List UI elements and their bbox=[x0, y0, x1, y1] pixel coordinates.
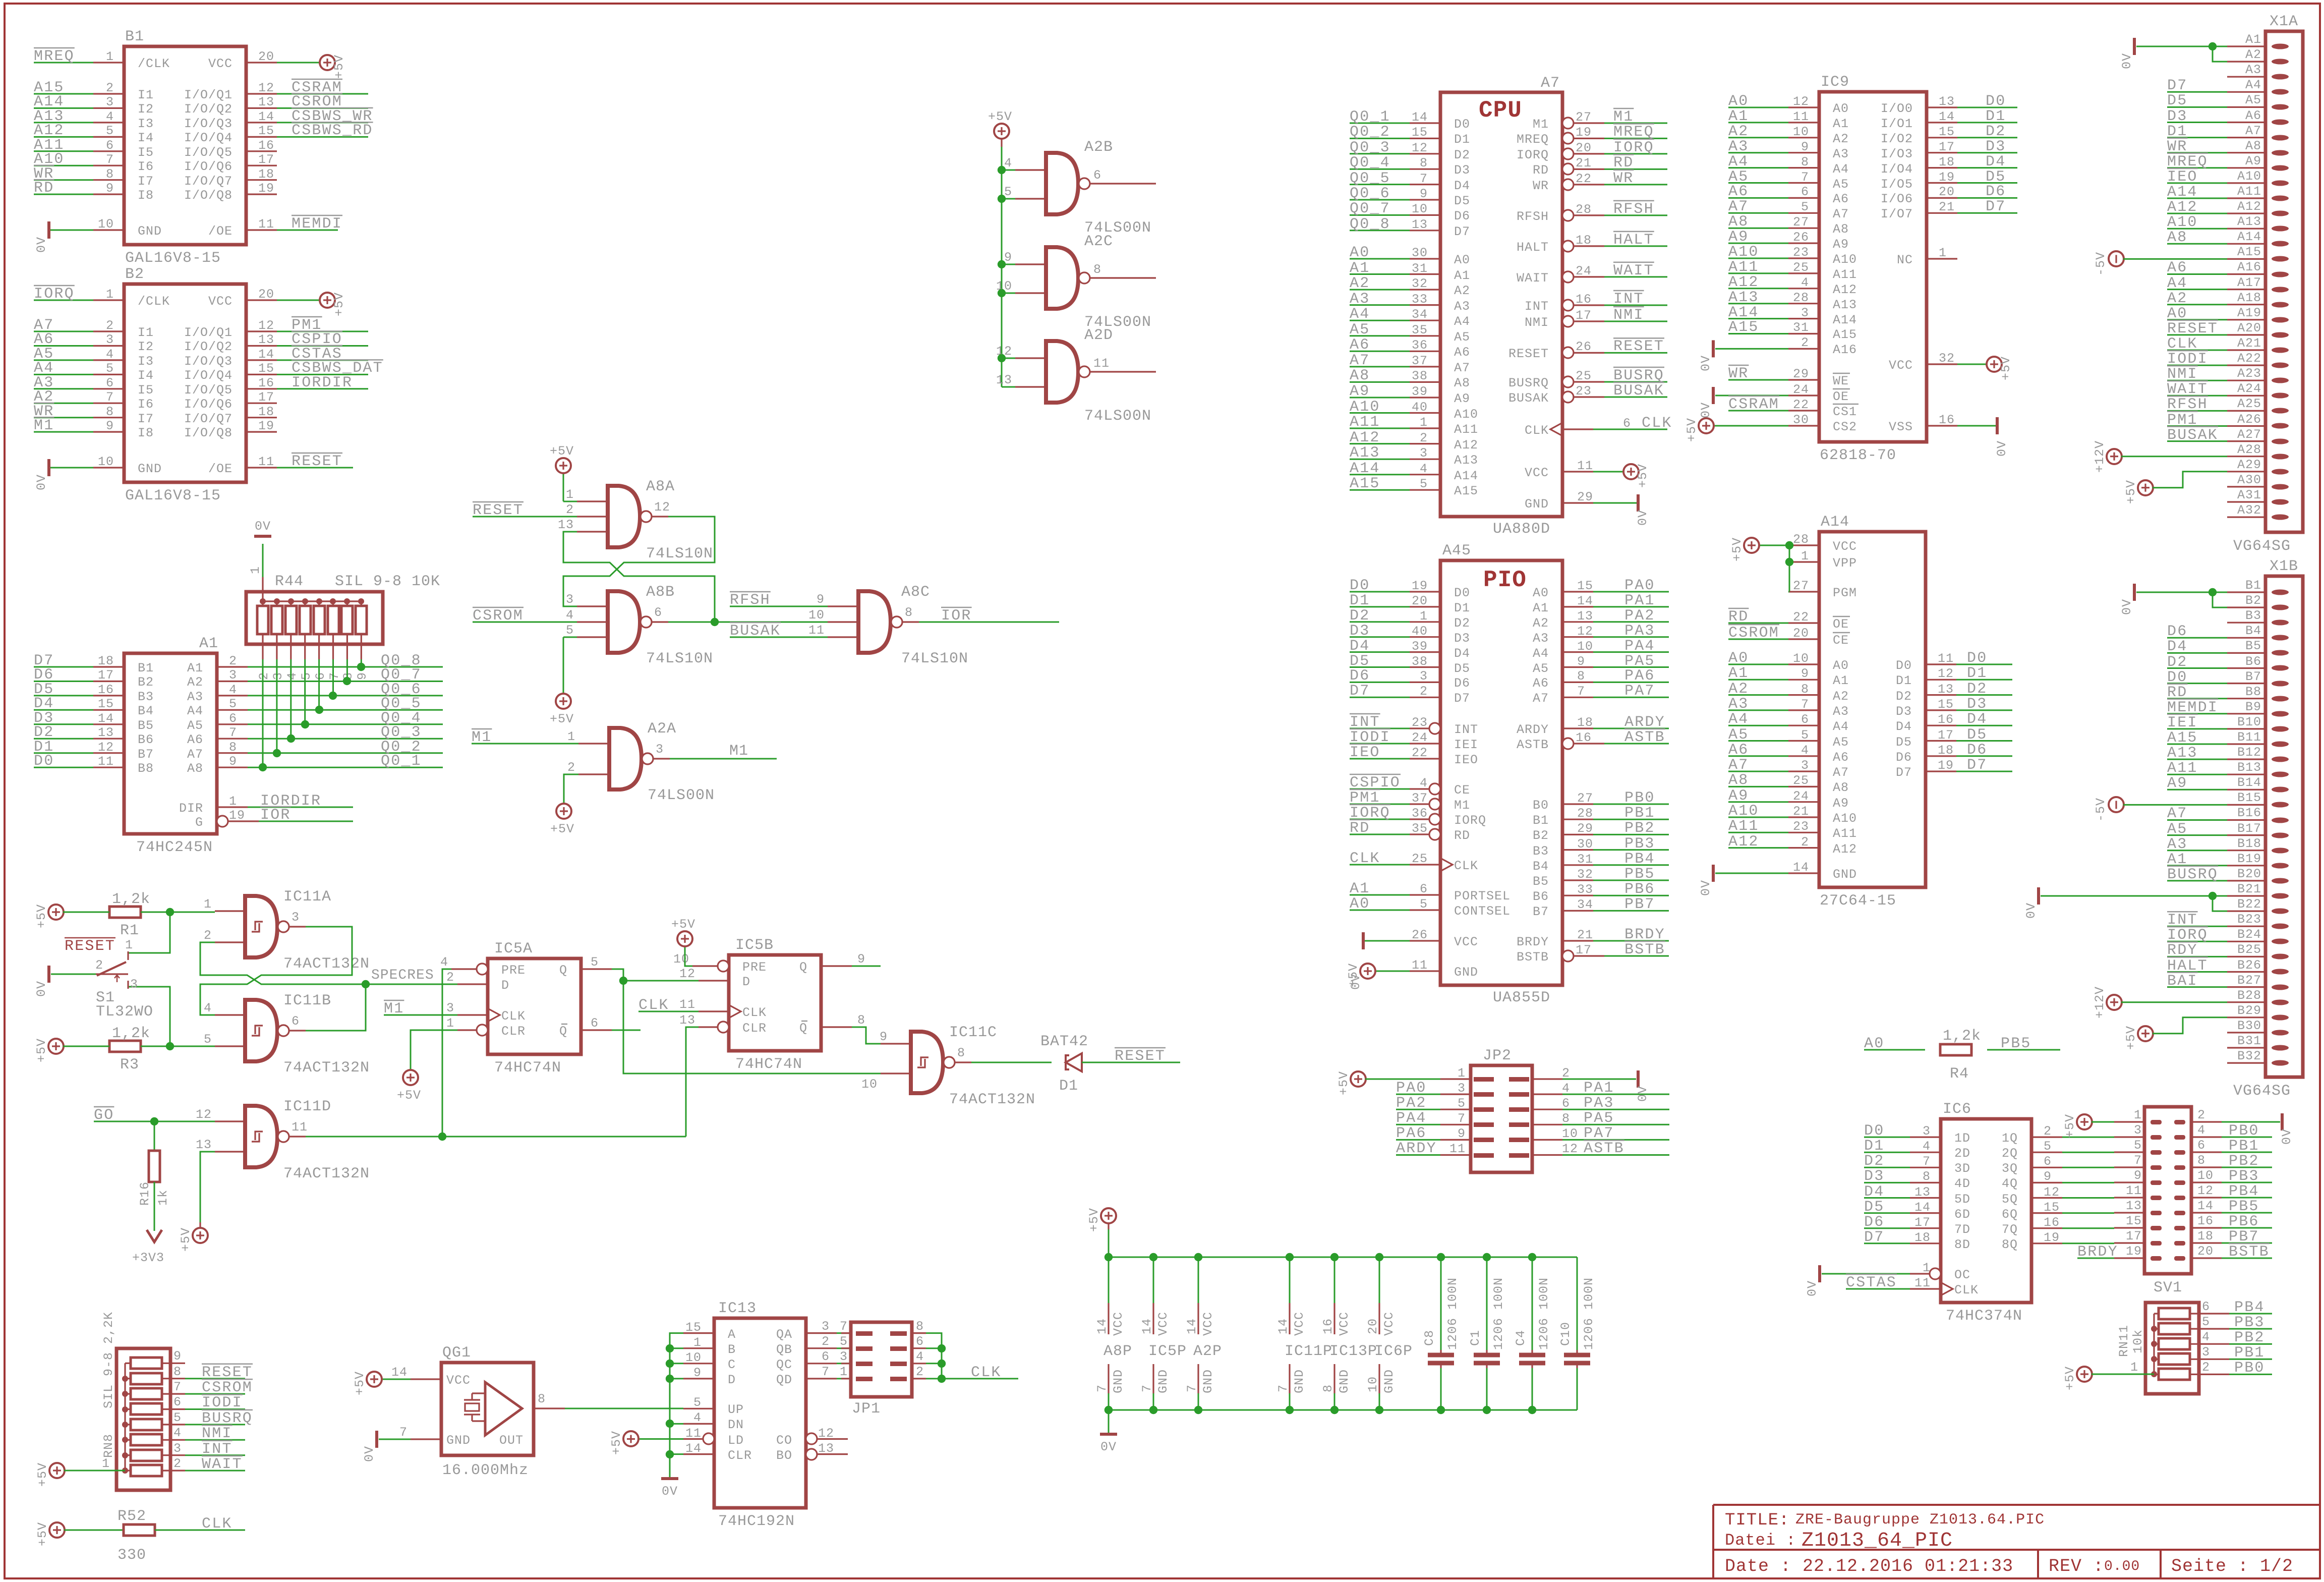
svg-text:33: 33 bbox=[1577, 882, 1593, 897]
wire A8A.13 cross link bbox=[563, 532, 715, 622]
svg-text:+5V: +5V bbox=[1337, 1071, 1351, 1095]
svg-text:14: 14 bbox=[1939, 109, 1955, 124]
title block frame bbox=[1713, 1505, 2320, 1578]
pin X1B.B19 net A1 bbox=[2272, 863, 2289, 869]
ground 0V at SV1.2 bbox=[2222, 1121, 2280, 1123]
pin B1.1 /CLK net MREQ bbox=[93, 62, 124, 63]
svg-text:A0: A0 bbox=[1833, 101, 1849, 116]
svg-text:I/O/Q1: I/O/Q1 bbox=[184, 325, 233, 340]
svg-text:B23: B23 bbox=[2237, 912, 2261, 927]
svg-text:A1: A1 bbox=[1728, 108, 1749, 125]
svg-text:2: 2 bbox=[822, 1334, 830, 1349]
svg-text:INT: INT bbox=[1454, 722, 1478, 737]
svg-text:HALT: HALT bbox=[1517, 240, 1549, 255]
wire IC5B.CLR riser from IC11D output bbox=[686, 1027, 699, 1137]
pin A8B.6 output bbox=[641, 616, 652, 628]
power +5V at IC13.LD bbox=[623, 1431, 638, 1446]
pin A14.28 VCC from +5V bbox=[1788, 544, 1819, 546]
svg-text:11: 11 bbox=[1093, 356, 1110, 371]
svg-text:R52: R52 bbox=[118, 1508, 146, 1525]
pin A14.3 A7 net A7 bbox=[1788, 770, 1819, 772]
svg-text:1: 1 bbox=[1420, 415, 1428, 430]
svg-text:A12: A12 bbox=[1728, 833, 1759, 851]
svg-text:3: 3 bbox=[130, 977, 138, 992]
svg-text:D: D bbox=[728, 1373, 736, 1387]
svg-text:15: 15 bbox=[258, 361, 274, 376]
svg-text:BRDY: BRDY bbox=[2077, 1244, 2118, 1261]
pin JP1.5 bbox=[856, 1346, 873, 1351]
power +5V at A8B.5 bbox=[556, 694, 571, 709]
svg-text:3: 3 bbox=[446, 1001, 454, 1015]
svg-text:RFSH: RFSH bbox=[1517, 209, 1549, 224]
svg-text:A1: A1 bbox=[1533, 601, 1549, 615]
svg-text:A5: A5 bbox=[1833, 177, 1849, 192]
junction IC13.B to bus bbox=[670, 1347, 683, 1349]
svg-text:+5V: +5V bbox=[1730, 537, 1745, 561]
pin PIO.21 BRDY net BRDY bbox=[1562, 940, 1593, 941]
pin IC11A.1 bbox=[215, 910, 245, 912]
svg-text:7: 7 bbox=[229, 725, 237, 740]
svg-text:A9: A9 bbox=[2245, 154, 2261, 168]
svg-text:DIR: DIR bbox=[179, 801, 203, 816]
pin A14.17 D5 net D5 bbox=[1926, 740, 1956, 742]
svg-text:BUSRQ: BUSRQ bbox=[2167, 866, 2218, 883]
pin A14.13 D2 net D2 bbox=[1926, 694, 1956, 696]
pin IC5A.3 CLK net M1 bbox=[457, 1014, 488, 1015]
pin JP1.6 bbox=[890, 1346, 907, 1351]
svg-text:A29: A29 bbox=[2237, 458, 2261, 472]
pin IC13.2 QB bbox=[806, 1347, 837, 1349]
svg-text:5: 5 bbox=[2134, 1138, 2142, 1153]
svg-text:6: 6 bbox=[1562, 1096, 1570, 1111]
svg-text:36: 36 bbox=[1412, 806, 1428, 821]
svg-text:39: 39 bbox=[1412, 639, 1428, 654]
pin A14.18 D6 net D6 bbox=[1926, 755, 1956, 757]
svg-text:9: 9 bbox=[1801, 140, 1809, 154]
pin A2B.4 bbox=[1015, 169, 1046, 171]
svg-text:IC5B: IC5B bbox=[735, 937, 774, 954]
pin IC6.19 8Q to SV1 bbox=[2031, 1242, 2062, 1244]
svg-text:11: 11 bbox=[1577, 459, 1593, 473]
pin IC13.3 QA bbox=[806, 1332, 837, 1334]
svg-text:11: 11 bbox=[1793, 109, 1809, 124]
svg-text:3: 3 bbox=[1420, 446, 1428, 461]
pin A2C.8 output stub bbox=[1090, 277, 1156, 278]
svg-text:2: 2 bbox=[2197, 1108, 2205, 1122]
svg-text:QG1: QG1 bbox=[442, 1344, 471, 1362]
svg-text:2: 2 bbox=[1420, 684, 1428, 699]
svg-text:7: 7 bbox=[840, 1319, 848, 1334]
svg-text:M1: M1 bbox=[34, 417, 54, 434]
resistor RN8.2 net WAIT bbox=[131, 1465, 162, 1476]
svg-text:NC: NC bbox=[1897, 253, 1913, 267]
svg-text:4: 4 bbox=[173, 1426, 182, 1440]
wire S1.3 to R3 node bbox=[128, 987, 170, 1046]
svg-text:D5: D5 bbox=[1967, 726, 1987, 744]
svg-text:A8: A8 bbox=[1350, 367, 1370, 384]
svg-text:D3: D3 bbox=[1896, 704, 1912, 719]
svg-text:Q0_6: Q0_6 bbox=[1350, 185, 1390, 202]
pin IC9.31 A15 net A15 bbox=[1788, 333, 1819, 334]
svg-text:INT: INT bbox=[1525, 299, 1549, 314]
svg-text:PA1: PA1 bbox=[1624, 592, 1655, 609]
svg-text:GND: GND bbox=[1382, 1369, 1397, 1393]
svg-text:IORQ: IORQ bbox=[34, 286, 75, 303]
svg-text:I3: I3 bbox=[138, 354, 154, 369]
svg-text:+5V: +5V bbox=[988, 109, 1012, 124]
svg-text:B22: B22 bbox=[2237, 897, 2261, 912]
svg-text:A6: A6 bbox=[1533, 676, 1549, 691]
junction JP1 output bbox=[938, 1360, 946, 1368]
svg-text:B3: B3 bbox=[1533, 844, 1549, 859]
resistor RN8.4 net NMI bbox=[131, 1434, 162, 1445]
wire +5V to R3 to IC11B.5 bbox=[63, 1046, 109, 1047]
svg-text:GND: GND bbox=[446, 1433, 471, 1448]
svg-text:A8: A8 bbox=[2245, 139, 2261, 153]
svg-text:17: 17 bbox=[258, 390, 274, 405]
svg-text:A17: A17 bbox=[2237, 275, 2261, 290]
pin SV1.2 bbox=[2174, 1120, 2185, 1124]
svg-text:9: 9 bbox=[817, 592, 825, 607]
svg-text:7: 7 bbox=[1801, 697, 1809, 712]
svg-text:A3: A3 bbox=[1454, 299, 1470, 314]
svg-text:13: 13 bbox=[2126, 1199, 2142, 1213]
svg-text:3: 3 bbox=[656, 742, 664, 757]
pin A1.2 A1 net Q0_8 bbox=[217, 666, 248, 667]
svg-text:SV1: SV1 bbox=[2154, 1279, 2182, 1296]
svg-text:Q0_4: Q0_4 bbox=[1350, 154, 1390, 172]
svg-text:PB3: PB3 bbox=[2234, 1314, 2265, 1331]
svg-text:A21: A21 bbox=[2237, 336, 2261, 351]
svg-text:D2: D2 bbox=[1864, 1153, 1884, 1170]
svg-text:BUSAK: BUSAK bbox=[1613, 382, 1664, 400]
ground 0V at R44.1 bbox=[254, 535, 271, 538]
pin PIO.38 D5 net D5 bbox=[1410, 666, 1440, 668]
svg-text:PA0: PA0 bbox=[1396, 1080, 1427, 1097]
svg-text:21: 21 bbox=[1577, 928, 1593, 942]
svg-text:GND: GND bbox=[138, 224, 162, 239]
svg-text:PB1: PB1 bbox=[1624, 805, 1655, 822]
pin IC5A.5 Q bbox=[581, 968, 612, 970]
svg-text:A2A: A2A bbox=[648, 720, 676, 738]
pin A1.6 A5 net Q0_4 bbox=[217, 723, 248, 725]
pin X1B.B9 net MEMDI bbox=[2272, 711, 2289, 717]
IC A45 PIO UA855D bbox=[1440, 560, 1562, 985]
svg-text:11: 11 bbox=[292, 1120, 308, 1135]
pin B1.7 I6 net A10 bbox=[93, 165, 124, 166]
svg-text:9: 9 bbox=[1458, 1126, 1466, 1141]
svg-text:5Q: 5Q bbox=[2002, 1192, 2018, 1207]
oscillator QG1 16.000Mhz bbox=[441, 1363, 534, 1455]
pin PIO.20 D1 net D1 bbox=[1410, 606, 1440, 607]
svg-text:5: 5 bbox=[693, 1395, 702, 1410]
svg-text:CLK: CLK bbox=[202, 1515, 233, 1533]
svg-text:BUSAK: BUSAK bbox=[1508, 391, 1549, 406]
svg-text:A3: A3 bbox=[1728, 696, 1749, 713]
svg-text:G: G bbox=[195, 815, 203, 830]
pin IC6.2 1Q to SV1 bbox=[2031, 1137, 2062, 1138]
ground 0V at IC9.A16 bbox=[1712, 340, 1715, 357]
ground 0V at IC13 input bus bbox=[661, 1477, 678, 1480]
svg-text:7D: 7D bbox=[1954, 1222, 1970, 1237]
svg-text:11: 11 bbox=[258, 217, 274, 232]
svg-text:IC5A: IC5A bbox=[494, 940, 533, 957]
svg-text:A1: A1 bbox=[1833, 117, 1849, 131]
svg-text:A27: A27 bbox=[2237, 427, 2261, 442]
svg-text:VCC: VCC bbox=[1156, 1312, 1171, 1336]
pin B2.1 /CLK net IORQ bbox=[93, 299, 124, 301]
svg-text:25: 25 bbox=[1793, 260, 1809, 275]
svg-text:Q0_7: Q0_7 bbox=[1350, 200, 1390, 217]
svg-text:+5V: +5V bbox=[2124, 1026, 2138, 1050]
pin X1B.B2 bbox=[2272, 605, 2289, 610]
svg-text:1: 1 bbox=[204, 897, 212, 912]
svg-text:3: 3 bbox=[2134, 1123, 2142, 1138]
pin IC6.12 5Q to SV1 bbox=[2031, 1197, 2062, 1199]
pin X1B.B7 net D0 bbox=[2272, 681, 2289, 687]
pin A14.2 A12 net A12 bbox=[1788, 847, 1819, 849]
svg-text:B21: B21 bbox=[2237, 882, 2261, 896]
svg-text:0V: 0V bbox=[2120, 53, 2134, 69]
svg-text:B10: B10 bbox=[2237, 715, 2261, 729]
pin A14.12 D1 net D1 bbox=[1926, 679, 1956, 681]
pin IC5B.13 CLR bbox=[718, 1022, 729, 1033]
svg-text:D0: D0 bbox=[1454, 586, 1470, 600]
svg-text:9: 9 bbox=[229, 754, 237, 769]
svg-text:B7: B7 bbox=[138, 747, 154, 762]
svg-text:CSRAM: CSRAM bbox=[1728, 396, 1779, 413]
svg-text:20: 20 bbox=[258, 49, 274, 64]
svg-text:WAIT: WAIT bbox=[1517, 271, 1549, 286]
svg-text:B31: B31 bbox=[2237, 1034, 2261, 1048]
svg-text:27: 27 bbox=[1793, 215, 1809, 230]
svg-text:2: 2 bbox=[1801, 835, 1809, 850]
pin IC13.15 A bbox=[683, 1332, 714, 1334]
svg-text:38: 38 bbox=[1412, 369, 1428, 383]
pin IC9.7 A5 net A5 bbox=[1788, 182, 1819, 184]
svg-text:20: 20 bbox=[1366, 1318, 1380, 1334]
pin PIO.37 M1 net PM1 bbox=[1429, 799, 1440, 810]
svg-text:D7: D7 bbox=[1350, 683, 1370, 700]
pin X1B.B26 net HALT bbox=[2272, 969, 2289, 975]
svg-text:I/O4: I/O4 bbox=[1881, 162, 1913, 177]
svg-text:ZRE-Baugruppe Z1013.64.PIC: ZRE-Baugruppe Z1013.64.PIC bbox=[1795, 1511, 2045, 1529]
svg-text:RD: RD bbox=[1350, 820, 1370, 837]
power pins IC13P VCC/GND bbox=[1330, 1253, 1339, 1261]
junction IC13.D to bus bbox=[670, 1378, 683, 1379]
svg-text:Z1013_64_PIC: Z1013_64_PIC bbox=[1802, 1530, 1953, 1552]
junction R44.9 to Q0_8 bbox=[357, 663, 365, 671]
pin X1B.B29 bbox=[2272, 1015, 2289, 1021]
svg-text:GND: GND bbox=[1292, 1369, 1307, 1393]
svg-text:WE: WE bbox=[1833, 374, 1849, 388]
svg-text:MREQ: MREQ bbox=[34, 48, 75, 65]
pin A14.1 VPP bbox=[1788, 561, 1819, 562]
svg-text:A8B: A8B bbox=[646, 584, 675, 601]
pin IC6.7 3D net D2 bbox=[1910, 1167, 1941, 1168]
svg-text:A0: A0 bbox=[1728, 650, 1749, 667]
svg-text:IC6P: IC6P bbox=[1374, 1343, 1413, 1360]
svg-text:18: 18 bbox=[1576, 233, 1592, 248]
svg-text:D0: D0 bbox=[34, 753, 54, 770]
power +5V at IC5B.PRE bbox=[677, 931, 692, 946]
svg-text:I/O/Q6: I/O/Q6 bbox=[184, 397, 233, 412]
svg-text:0V: 0V bbox=[1699, 402, 1713, 418]
svg-text:D0: D0 bbox=[1350, 577, 1370, 594]
svg-text:22: 22 bbox=[1576, 172, 1592, 186]
svg-text:2: 2 bbox=[566, 502, 574, 517]
pin B1.13 I/O/Q2 net CSROM bbox=[246, 107, 277, 109]
svg-text:CSTAS: CSTAS bbox=[1846, 1274, 1897, 1291]
pin X1B.B4 net D6 bbox=[2272, 635, 2289, 641]
svg-text:GND: GND bbox=[1156, 1369, 1171, 1393]
svg-text:0V: 0V bbox=[1100, 1440, 1117, 1454]
pin PIO.2 D7 net D7 bbox=[1410, 697, 1440, 698]
pin R44.6 bbox=[318, 644, 320, 659]
junction at A2C.9 bbox=[998, 260, 1006, 268]
svg-text:18: 18 bbox=[1939, 155, 1955, 169]
svg-text:C10: C10 bbox=[1558, 1322, 1573, 1346]
svg-text:24: 24 bbox=[1793, 789, 1809, 804]
pin X1B.B17 net A5 bbox=[2272, 833, 2289, 838]
svg-text:A7: A7 bbox=[2167, 805, 2187, 822]
svg-text:QD: QD bbox=[776, 1373, 792, 1387]
svg-text:4: 4 bbox=[285, 672, 300, 680]
svg-text:VG64SG: VG64SG bbox=[2233, 1083, 2291, 1100]
junction IC13.C to bus bbox=[670, 1363, 683, 1364]
pin CPU.37 A7 net A7 bbox=[1410, 366, 1440, 367]
svg-text:13: 13 bbox=[196, 1138, 212, 1152]
svg-text:13: 13 bbox=[258, 332, 274, 347]
pin IC11D.12 net GO bbox=[215, 1120, 245, 1122]
svg-text:11: 11 bbox=[685, 1426, 702, 1441]
pin PIO.26 VCC to 0V bbox=[1410, 940, 1440, 941]
pin X1A.A24 net WAIT bbox=[2272, 393, 2289, 399]
svg-text:A2B: A2B bbox=[1084, 139, 1113, 156]
svg-text:4: 4 bbox=[566, 608, 574, 623]
pin PIO.28 B1 net PB1 bbox=[1562, 819, 1593, 820]
pin PIO.6 PORTSEL net A1 bbox=[1410, 894, 1440, 895]
pin IC6.13 5D net D4 bbox=[1910, 1197, 1941, 1199]
svg-text:8: 8 bbox=[106, 405, 114, 419]
svg-text:10: 10 bbox=[808, 608, 825, 623]
svg-text:D4: D4 bbox=[1454, 646, 1470, 661]
svg-text:4D: 4D bbox=[1954, 1176, 1970, 1191]
svg-text:B4: B4 bbox=[138, 704, 154, 718]
pin QG1.14 VCC from +5V bbox=[411, 1378, 441, 1380]
svg-text:1Q: 1Q bbox=[2002, 1131, 2018, 1146]
svg-text:6: 6 bbox=[1801, 712, 1809, 727]
svg-text:+5V: +5V bbox=[2063, 1366, 2077, 1390]
svg-text:17: 17 bbox=[1576, 308, 1592, 323]
svg-text:A3: A3 bbox=[1350, 291, 1370, 308]
resistor R3 1,2k bbox=[109, 1041, 141, 1052]
connector SV1 bbox=[2144, 1107, 2191, 1274]
svg-text:32: 32 bbox=[1939, 351, 1955, 366]
svg-text:2: 2 bbox=[916, 1365, 924, 1379]
pin SV1.5 bbox=[2151, 1150, 2162, 1155]
ground 0V at B2.10 bbox=[47, 459, 50, 476]
junction R3 node bbox=[166, 1042, 174, 1050]
svg-text:19: 19 bbox=[2126, 1244, 2142, 1259]
pin X1B.B25 net RDY bbox=[2272, 954, 2289, 959]
pin B2.15 I/O/Q4 net CSBWS_DAT bbox=[246, 374, 277, 375]
svg-text:M1: M1 bbox=[384, 1000, 404, 1018]
pin B1.16 I/O/Q5 bbox=[246, 150, 277, 152]
svg-text:A10: A10 bbox=[2167, 214, 2198, 231]
svg-text:23: 23 bbox=[1576, 384, 1592, 399]
svg-text:A11: A11 bbox=[1728, 818, 1759, 835]
svg-text:PB6: PB6 bbox=[2229, 1213, 2259, 1230]
pin IC5A.2 D bbox=[457, 983, 488, 985]
svg-text:C8: C8 bbox=[1422, 1330, 1437, 1346]
svg-text:39: 39 bbox=[1412, 384, 1428, 399]
wire IC11D.11 to IC5A.PRE and IC5B.CLR bbox=[306, 1136, 686, 1138]
pin A8C.8 output net IOR bbox=[891, 616, 902, 628]
power +5V at IC9.VCC bbox=[1987, 357, 2002, 372]
pin CPU.22 WR net WR bbox=[1562, 179, 1574, 190]
svg-text:PRE: PRE bbox=[501, 963, 526, 978]
svg-text:INT: INT bbox=[2167, 912, 2198, 929]
pin A14.14 GND to 0V bbox=[1788, 872, 1819, 874]
svg-text:16: 16 bbox=[98, 683, 114, 697]
svg-text:21: 21 bbox=[1939, 200, 1955, 214]
svg-text:A2: A2 bbox=[187, 675, 203, 690]
resistor RN11.6 net PB4 bbox=[2159, 1308, 2190, 1319]
grounded input bus of IC13 bbox=[670, 1333, 683, 1477]
svg-text:QC: QC bbox=[776, 1358, 792, 1372]
svg-text:A15: A15 bbox=[1350, 475, 1380, 492]
svg-text:15: 15 bbox=[1939, 125, 1955, 139]
pin IC13.1 B bbox=[683, 1347, 714, 1349]
svg-text:A9: A9 bbox=[1728, 787, 1749, 805]
svg-text:A9: A9 bbox=[1833, 796, 1849, 811]
wire IC11B.6 to SPECRES / IC11A.2 (cross) bbox=[200, 942, 366, 1031]
svg-text:A1: A1 bbox=[199, 635, 218, 652]
svg-text:10: 10 bbox=[861, 1077, 878, 1092]
svg-text:A4: A4 bbox=[1728, 153, 1749, 171]
pin SV1.11 bbox=[2151, 1196, 2162, 1200]
pin A1.12 B7 net D1 bbox=[93, 752, 124, 754]
pin SV1.7 bbox=[2151, 1165, 2162, 1170]
pin B1.3 I2 net A14 bbox=[93, 107, 124, 109]
svg-text:12: 12 bbox=[2044, 1185, 2060, 1200]
svg-text:A7: A7 bbox=[1833, 765, 1849, 780]
svg-text:0V: 0V bbox=[362, 1446, 377, 1462]
svg-text:GND: GND bbox=[1454, 965, 1478, 980]
svg-text:9: 9 bbox=[106, 181, 114, 196]
pin RN8.1 from +5V bbox=[49, 1463, 65, 1478]
pin JP1.8 bbox=[890, 1331, 907, 1336]
supply -5V at X1B.B15 bbox=[2109, 797, 2124, 812]
svg-text:D5: D5 bbox=[1896, 735, 1912, 750]
pin B2.13 I/O/Q2 net CSPIO bbox=[246, 345, 277, 347]
svg-text:B14: B14 bbox=[2237, 775, 2261, 790]
svg-text:A15: A15 bbox=[1728, 319, 1759, 336]
svg-text:Q: Q bbox=[799, 1021, 807, 1036]
pin SV1.16 net PB6 bbox=[2174, 1226, 2185, 1230]
svg-text:VCC: VCC bbox=[1833, 539, 1857, 554]
svg-text:IORQ: IORQ bbox=[1454, 813, 1486, 828]
svg-text:GAL16V8-15: GAL16V8-15 bbox=[125, 250, 221, 267]
svg-text:TL32WO: TL32WO bbox=[96, 1003, 153, 1021]
svg-text:WR: WR bbox=[1728, 365, 1749, 382]
pin IC9.14 I/O1 net D1 bbox=[1927, 122, 1957, 123]
pin IC9.21 I/O7 net D7 bbox=[1927, 212, 1957, 214]
svg-text:15: 15 bbox=[2126, 1214, 2142, 1228]
pin X1A.A7 net D1 bbox=[2272, 135, 2289, 141]
svg-text:15: 15 bbox=[1938, 697, 1954, 712]
